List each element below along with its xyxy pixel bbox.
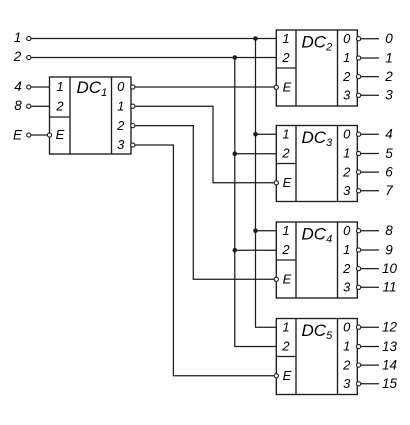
svg-text:2: 2 [342, 357, 351, 372]
wire bus2 branch to DC4 pin2 [235, 249, 276, 251]
wire DC1 out0 to DC2 E [135, 86, 274, 88]
DC5 out0 pin [357, 325, 361, 329]
junction bus2 DC4 [233, 248, 238, 253]
svg-text:5: 5 [385, 146, 393, 161]
svg-text:DC5: DC5 [302, 321, 334, 342]
svg-text:14: 14 [382, 357, 397, 372]
DC1 enable bubble [47, 133, 51, 137]
decoder DC3 [276, 126, 357, 202]
DC3 enable bubble [274, 181, 278, 185]
junction bus2 at line 2 [233, 55, 238, 60]
svg-text:0: 0 [117, 79, 125, 94]
DC1 output 2 pin [131, 124, 135, 128]
wire bus2 branch to DC3 pin2 [235, 153, 276, 155]
DC4 out3 pin [357, 285, 361, 289]
svg-text:2: 2 [281, 339, 290, 354]
wire DC4 out2 stub [361, 268, 379, 270]
DC2 out2 pin [357, 75, 361, 79]
svg-text:1: 1 [282, 223, 289, 238]
svg-text:3: 3 [343, 280, 351, 295]
svg-text:1: 1 [343, 339, 350, 354]
node 8 terminal [27, 104, 31, 108]
wire DC1 out1 to DC3 E [135, 106, 274, 183]
svg-text:2: 2 [281, 50, 290, 65]
wire input E to DC1 enable [31, 134, 47, 136]
wire DC3 out1 stub [361, 153, 379, 155]
wire bus1 branch to DC4 pin1 [256, 230, 277, 232]
svg-text:E: E [56, 127, 65, 142]
svg-text:8: 8 [385, 223, 393, 238]
wire DC2 out3 stub [361, 94, 379, 96]
svg-text:2: 2 [342, 69, 351, 84]
wire DC5 out0 stub [361, 326, 379, 328]
DC4 enable bubble [274, 277, 278, 281]
svg-text:11: 11 [382, 280, 396, 295]
junction bus1 DC4 [253, 228, 258, 233]
DC4 out1 pin [357, 248, 361, 252]
DC1 output 0 pin [131, 85, 135, 89]
wire DC2 out2 stub [361, 76, 379, 78]
svg-text:E: E [13, 128, 23, 143]
DC5 enable bubble [274, 374, 278, 378]
svg-text:0: 0 [343, 31, 351, 46]
wire DC4 out0 stub [361, 230, 379, 232]
DC2 enable bubble [274, 85, 278, 89]
svg-text:1: 1 [343, 146, 350, 161]
svg-text:2: 2 [55, 98, 64, 113]
wire DC1 out3 to DC5 E [135, 145, 274, 376]
svg-text:0: 0 [385, 31, 393, 46]
wire DC5 out1 stub [361, 346, 379, 348]
svg-text:1: 1 [56, 79, 63, 94]
svg-text:DC2: DC2 [302, 32, 333, 53]
DC3 out2 pin [357, 170, 361, 174]
svg-text:0: 0 [343, 223, 351, 238]
svg-text:12: 12 [382, 320, 398, 335]
svg-text:2: 2 [13, 49, 22, 64]
junction bus1 at line 1 [253, 36, 258, 41]
svg-text:13: 13 [382, 339, 398, 354]
DC4 out2 pin [357, 267, 361, 271]
wire DC2 out0 stub [361, 38, 379, 40]
svg-text:2: 2 [116, 118, 125, 133]
decoder DC1 [50, 77, 132, 154]
wire bus1 vertical [256, 39, 277, 328]
svg-text:1: 1 [343, 50, 350, 65]
wire bus1 horizontal [31, 38, 276, 40]
node 2 terminal [27, 55, 31, 59]
svg-text:3: 3 [385, 88, 393, 103]
svg-text:4: 4 [385, 127, 393, 142]
junction bus1 DC3 [253, 132, 258, 137]
wire bus2 vertical [235, 58, 276, 347]
DC5 out1 pin [357, 344, 361, 348]
DC2 out0 pin [357, 37, 361, 41]
svg-text:0: 0 [343, 319, 351, 334]
node E terminal [27, 133, 31, 137]
junction bus2 DC3 [233, 151, 238, 156]
DC2 out3 pin [357, 93, 361, 97]
svg-text:0: 0 [343, 126, 351, 141]
svg-text:2: 2 [281, 242, 290, 257]
wire bus1 branch to DC3 pin1 [256, 133, 277, 135]
svg-text:DC4: DC4 [302, 224, 333, 245]
DC4 out0 pin [357, 229, 361, 233]
svg-text:1: 1 [282, 31, 289, 46]
svg-text:1: 1 [117, 98, 124, 113]
svg-text:E: E [283, 80, 292, 95]
svg-text:E: E [283, 272, 292, 287]
decoder DC2 [276, 30, 357, 106]
svg-text:1: 1 [343, 242, 350, 257]
wire bus2 horizontal [31, 57, 276, 59]
wire DC4 out3 stub [361, 286, 379, 288]
wire input 8 to DC1 pin 2 [31, 105, 50, 107]
DC1 output 3 pin [131, 143, 135, 147]
wire DC3 out3 stub [361, 190, 379, 192]
DC3 out1 pin [357, 151, 361, 155]
svg-text:1: 1 [282, 126, 289, 141]
wire DC1 out2 to DC4 E [135, 126, 274, 280]
wire DC4 out1 stub [361, 249, 379, 251]
svg-text:4: 4 [14, 79, 22, 94]
svg-text:8: 8 [14, 98, 22, 113]
node 1 terminal [27, 36, 31, 40]
svg-text:3: 3 [117, 137, 125, 152]
svg-text:1: 1 [385, 50, 393, 65]
DC5 out3 pin [357, 382, 361, 386]
wire DC5 out3 stub [361, 383, 379, 385]
svg-text:3: 3 [343, 88, 351, 103]
wire DC2 out1 stub [361, 57, 379, 59]
DC5 out2 pin [357, 363, 361, 367]
DC3 out3 pin [357, 189, 361, 193]
wire DC3 out2 stub [361, 171, 379, 173]
decoder DC5 [276, 319, 357, 395]
svg-text:2: 2 [342, 164, 351, 179]
svg-text:2: 2 [342, 261, 351, 276]
node 4 terminal [27, 85, 31, 89]
svg-text:E: E [283, 175, 292, 190]
svg-text:3: 3 [343, 376, 351, 391]
svg-text:E: E [283, 368, 292, 383]
wire DC5 out2 stub [361, 364, 379, 366]
svg-text:2: 2 [281, 146, 290, 161]
decoder DC4 [276, 222, 357, 298]
svg-text:10: 10 [382, 261, 398, 276]
svg-text:15: 15 [382, 376, 398, 391]
DC1 output 1 pin [131, 104, 135, 108]
svg-text:7: 7 [385, 183, 393, 198]
DC2 out1 pin [357, 56, 361, 60]
svg-text:DC1: DC1 [77, 78, 108, 99]
wire input 4 to DC1 pin 1 [31, 86, 50, 88]
DC3 out0 pin [357, 132, 361, 136]
svg-text:9: 9 [385, 242, 393, 257]
svg-text:1: 1 [282, 319, 289, 334]
svg-text:DC3: DC3 [302, 128, 334, 149]
svg-text:1: 1 [14, 30, 22, 45]
svg-text:6: 6 [385, 164, 393, 179]
svg-text:3: 3 [343, 183, 351, 198]
svg-text:2: 2 [384, 69, 393, 84]
wire DC3 out0 stub [361, 133, 379, 135]
